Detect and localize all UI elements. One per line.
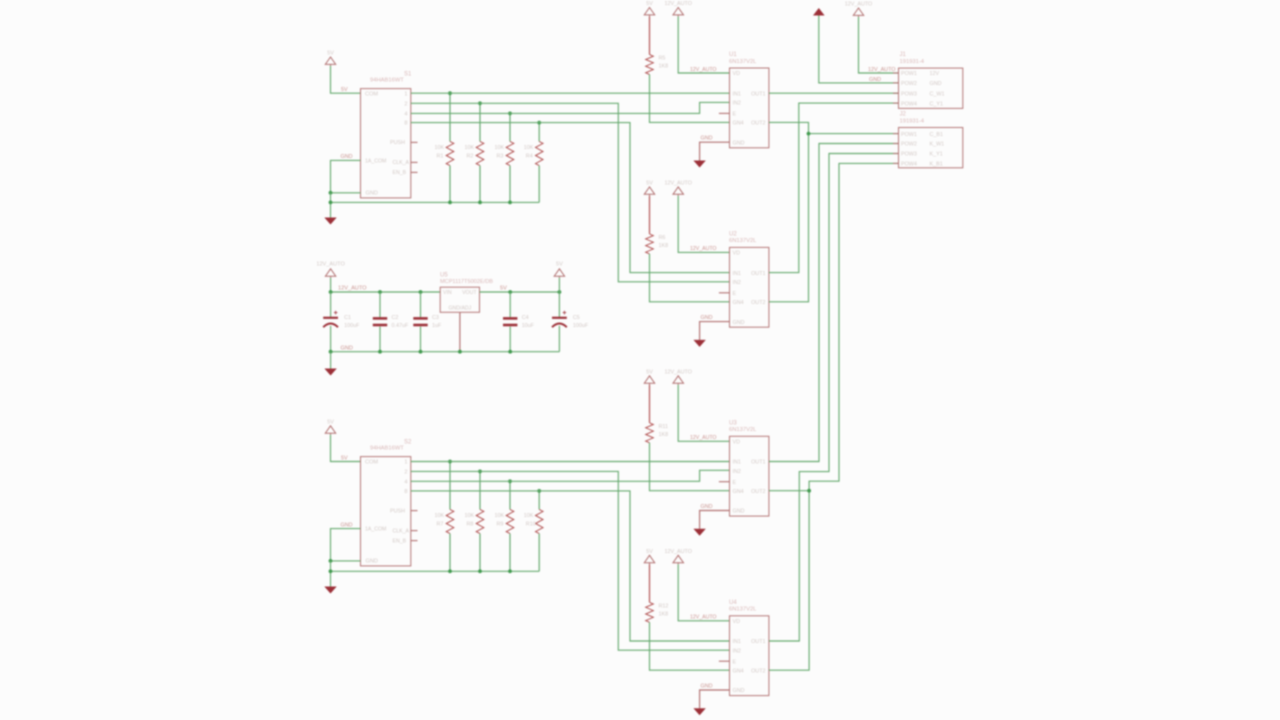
supply arrow 12V_AUTO (regulator input): [325, 269, 335, 278]
svg-text:POW3: POW3: [901, 152, 917, 158]
wire GND to J1 pin2: [819, 16, 899, 83]
junction: [478, 470, 482, 474]
voltage regulator U5 MCP1117T5002E/DB: [440, 287, 479, 312]
svg-text:U4: U4: [729, 600, 737, 606]
svg-text:VD: VD: [733, 440, 741, 446]
svg-text:5V: 5V: [646, 1, 653, 7]
resistor R7 10K: [449, 462, 451, 510]
svg-text:C4: C4: [522, 315, 529, 321]
svg-text:0.47uF: 0.47uF: [392, 323, 409, 329]
svg-text:R3: R3: [497, 153, 504, 159]
svg-text:R12: R12: [659, 603, 669, 609]
junction: [478, 101, 482, 105]
svg-text:10K: 10K: [465, 513, 475, 519]
svg-text:MCP1117T5002E/DB: MCP1117T5002E/DB: [440, 279, 493, 285]
svg-text:1: 1: [404, 460, 407, 466]
wire pull-up to U4 pin GN4: [650, 622, 730, 670]
S2 pin stub CLK_A: [411, 530, 418, 532]
svg-text:K_B1: K_B1: [930, 162, 943, 168]
resistor R8 10K: [479, 471, 481, 509]
svg-text:1K8: 1K8: [659, 432, 669, 438]
svg-text:GN4: GN4: [733, 489, 744, 495]
U4 pin E stub: [719, 660, 730, 662]
S1 pin stub EN_B: [411, 171, 418, 173]
wire net C2 (S2-4 to U3 IN2): [411, 470, 730, 481]
svg-text:GND: GND: [701, 683, 713, 689]
svg-text:R4: R4: [526, 153, 533, 159]
wire S1 GND pin: [331, 160, 361, 192]
capacitor C4 10uF: [509, 292, 511, 317]
svg-text:J2: J2: [900, 112, 907, 118]
svg-text:U2: U2: [729, 232, 737, 238]
ground: [693, 340, 705, 347]
svg-text:1K8: 1K8: [659, 611, 669, 617]
svg-text:94HAB16WT: 94HAB16WT: [370, 78, 404, 84]
wire U4 OUT1 to J2 pin3: [769, 154, 899, 642]
svg-text:12V_AUTO: 12V_AUTO: [664, 1, 691, 7]
wire net A2 (S2-1 to U3 IN1): [411, 461, 730, 463]
J1 pin POW3 lead: [893, 92, 899, 94]
wire U3 GND: [700, 511, 730, 529]
wire pull-up to U1 pin GN4: [650, 75, 730, 123]
junction: [329, 201, 333, 205]
wire ground rail (power section): [331, 351, 560, 353]
svg-text:GND: GND: [930, 81, 942, 87]
optocoupler U1 6N137V2L: [730, 68, 769, 148]
wire 12V_AUTO to U2 VD: [678, 196, 729, 253]
S2 pin stub PUSH: [411, 510, 418, 512]
wire ground rail: [331, 561, 540, 571]
junction: [508, 350, 512, 354]
wire S1 GND2 pin: [331, 192, 361, 194]
svg-text:12V_AUTO: 12V_AUTO: [690, 435, 716, 441]
svg-text:VD: VD: [733, 71, 741, 77]
svg-text:GND: GND: [701, 504, 713, 510]
supply arrow 12V_AUTO (J1): [853, 8, 863, 17]
ground: [324, 587, 336, 594]
svg-text:CLK_A: CLK_A: [393, 160, 410, 166]
svg-text:OUT1: OUT1: [751, 271, 765, 277]
svg-text:1A_COM: 1A_COM: [365, 158, 386, 164]
svg-text:S2: S2: [404, 439, 412, 445]
junction: [448, 460, 452, 464]
svg-text:10K: 10K: [465, 145, 475, 151]
wire 5V output rail: [480, 291, 560, 293]
ground: [693, 529, 705, 536]
junction: [478, 201, 482, 205]
svg-text:12V_AUTO: 12V_AUTO: [690, 246, 716, 252]
wire 12V_AUTO to U1 VD: [678, 16, 729, 73]
svg-text:12V_AUTO: 12V_AUTO: [690, 67, 716, 73]
svg-text:CLK_A: CLK_A: [393, 528, 410, 534]
junction: [329, 350, 333, 354]
svg-text:100uF: 100uF: [573, 323, 589, 329]
svg-text:R5: R5: [659, 56, 666, 62]
supply arrow 5V (regulator output): [554, 269, 564, 278]
supply arrow 5V (S1): [325, 57, 335, 66]
svg-text:GND: GND: [869, 77, 881, 83]
svg-text:C3: C3: [432, 315, 439, 321]
svg-text:R9: R9: [497, 521, 504, 527]
svg-text:COM: COM: [365, 460, 378, 466]
wire 12V_AUTO to U4 VD: [678, 564, 729, 621]
U1 pin E stub: [719, 112, 730, 114]
svg-text:POW4: POW4: [901, 162, 917, 168]
svg-text:K_W1: K_W1: [930, 142, 945, 148]
junction: [558, 290, 562, 294]
supply arrow 12V_AUTO (U3): [673, 376, 684, 385]
wire net D (S1-8 to U2 IN1): [411, 123, 730, 273]
resistor R10 10K: [538, 491, 540, 510]
J2 pin POW4 lead: [893, 162, 899, 164]
svg-text:U3: U3: [729, 421, 737, 427]
svg-text:12V_AUTO: 12V_AUTO: [664, 369, 691, 375]
svg-text:C_Y1: C_Y1: [930, 101, 944, 107]
svg-text:IN2: IN2: [733, 648, 741, 654]
svg-text:R7: R7: [437, 521, 444, 527]
svg-text:IN1: IN1: [733, 271, 741, 277]
junction: [448, 91, 452, 95]
S1 pin stub PUSH: [411, 141, 418, 143]
svg-text:K_Y1: K_Y1: [930, 152, 943, 158]
wire net B (S1-2 to U2 IN2): [411, 103, 730, 281]
svg-text:GND/ADJ: GND/ADJ: [449, 306, 472, 312]
svg-text:IN1: IN1: [733, 639, 741, 645]
wire S2 GND2 pin: [331, 560, 361, 562]
svg-text:12V_AUTO: 12V_AUTO: [316, 262, 345, 268]
ground: [324, 218, 336, 225]
ground: [693, 708, 705, 715]
connector J1 191931-4: [899, 68, 963, 108]
svg-text:2: 2: [404, 470, 407, 476]
svg-text:VD: VD: [733, 251, 741, 257]
svg-text:OUT1: OUT1: [751, 91, 765, 97]
svg-text:POW2: POW2: [901, 142, 917, 148]
junction: [329, 191, 333, 195]
svg-text:4: 4: [404, 479, 407, 485]
capacitor C1 100uF (polarized): [330, 292, 332, 317]
svg-text:VD: VD: [733, 619, 741, 625]
svg-text:10K: 10K: [435, 145, 445, 151]
svg-text:4: 4: [404, 112, 407, 118]
svg-text:POW2: POW2: [901, 81, 917, 87]
svg-text:OUT2: OUT2: [751, 668, 765, 674]
junction: [329, 569, 333, 573]
capacitor C5 100uF (polarized): [558, 292, 560, 317]
svg-text:12V_AUTO: 12V_AUTO: [338, 286, 367, 292]
svg-text:GN4: GN4: [733, 668, 744, 674]
svg-text:6N137V2L: 6N137V2L: [729, 59, 757, 65]
supply arrow 12V_AUTO (U1): [673, 8, 684, 17]
svg-text:1: 1: [404, 91, 407, 97]
wire 5V to S2 COM: [331, 435, 361, 462]
svg-text:S1: S1: [404, 71, 412, 77]
svg-text:EN_B: EN_B: [393, 170, 407, 176]
wire ground rail: [331, 193, 540, 203]
junction: [448, 569, 452, 573]
junction: [807, 489, 811, 493]
pull-up resistor R5 1K8: [649, 16, 651, 54]
svg-text:IN2: IN2: [733, 280, 741, 286]
wire to ground: [330, 352, 332, 369]
J1 pin POW2 lead: [893, 82, 899, 84]
wire U2 GND: [700, 322, 730, 340]
S2 pin stub EN_B: [411, 540, 418, 542]
wire U1 GND: [700, 142, 730, 160]
svg-text:5V: 5V: [341, 87, 348, 93]
junction: [508, 112, 512, 116]
junction: [807, 132, 811, 136]
resistor R1 10K: [449, 93, 451, 141]
wire U1 OUT1 to J1 pin3: [769, 92, 899, 94]
wire 5V arrow to rail: [558, 278, 560, 292]
wire OUT2 bus to J2 pin1: [809, 133, 899, 135]
U3 pin E stub: [719, 481, 730, 483]
wire net A (S1-1 to U1 IN1): [411, 92, 730, 94]
pull-up resistor R11 1K8: [649, 385, 651, 423]
supply arrow 5V (U1): [644, 8, 654, 17]
wire 5V to S1 COM: [331, 66, 361, 93]
svg-text:12V_AUTO: 12V_AUTO: [845, 1, 872, 7]
junction: [419, 350, 423, 354]
svg-text:POW4: POW4: [901, 101, 917, 107]
svg-text:EN_B: EN_B: [393, 538, 407, 544]
resistor R2 10K: [479, 103, 481, 141]
capacitor C2 0.47uF: [379, 292, 381, 317]
junction: [458, 350, 462, 354]
svg-text:E: E: [733, 659, 737, 665]
svg-text:5V: 5V: [341, 455, 348, 461]
svg-text:12V: 12V: [930, 71, 940, 77]
power arrow GND (J1): [813, 8, 825, 16]
svg-text:191931-4: 191931-4: [900, 118, 925, 124]
svg-text:+: +: [562, 310, 566, 317]
svg-text:191931-4: 191931-4: [900, 59, 925, 65]
svg-text:U1: U1: [729, 52, 737, 58]
supply arrow 5V (U4): [644, 555, 654, 564]
J2 pin POW3 lead: [893, 153, 899, 155]
wire 12V_AUTO to J1 pin1: [859, 17, 899, 73]
ground: [693, 161, 705, 168]
connector J2 191931-4: [899, 128, 963, 168]
J1 pin POW4 lead: [893, 102, 899, 104]
svg-text:10K: 10K: [524, 513, 534, 519]
svg-text:COM: COM: [365, 91, 378, 97]
svg-text:1uF: 1uF: [432, 323, 442, 329]
wire U3 OUT2 stub: [769, 490, 809, 492]
junction: [537, 489, 541, 493]
S1 pin stub CLK_A: [411, 161, 418, 163]
optocoupler U3 6N137V2L: [730, 436, 769, 516]
supply arrow 5V (S2): [325, 426, 335, 435]
svg-text:GN4: GN4: [733, 300, 744, 306]
svg-text:R10: R10: [526, 521, 536, 527]
pull-up resistor R6 1K8: [649, 196, 651, 234]
wire pull-up to U3 pin GN4: [650, 443, 730, 491]
svg-text:R2: R2: [467, 153, 474, 159]
svg-text:OUT2: OUT2: [751, 489, 765, 495]
svg-text:+: +: [334, 310, 338, 317]
svg-text:IN1: IN1: [733, 460, 741, 466]
resistor R3 10K: [509, 113, 511, 141]
svg-text:5V: 5V: [646, 180, 653, 186]
U2 pin E stub: [719, 292, 730, 294]
ground: [324, 369, 336, 376]
wire U1 OUT2 / U2 OUT2 bus: [769, 122, 809, 301]
svg-text:6N137V2L: 6N137V2L: [729, 238, 757, 244]
wire U5 GND pin: [459, 312, 461, 351]
junction: [329, 559, 333, 563]
svg-text:GND: GND: [701, 315, 713, 321]
wire 12V_AUTO input rail: [331, 278, 441, 292]
svg-text:VOUT: VOUT: [462, 290, 477, 296]
wire U4 OUT2 to J2 pin4: [769, 163, 899, 670]
svg-text:12V_AUTO: 12V_AUTO: [868, 67, 895, 73]
supply arrow 12V_AUTO (U2): [673, 187, 684, 196]
svg-text:5V: 5V: [500, 286, 507, 292]
svg-text:POW1: POW1: [901, 132, 917, 138]
wire 12V_AUTO to U3 VD: [678, 385, 729, 442]
junction: [478, 569, 482, 573]
svg-text:OUT1: OUT1: [751, 639, 765, 645]
svg-text:R8: R8: [467, 521, 474, 527]
svg-text:J1: J1: [900, 52, 907, 58]
svg-text:POW3: POW3: [901, 91, 917, 97]
rotary switch S1 94HAB16WT: [361, 89, 411, 198]
supply arrow 5V (U2): [644, 187, 654, 196]
svg-text:GND: GND: [366, 559, 378, 565]
svg-text:10K: 10K: [435, 513, 445, 519]
junction: [537, 121, 541, 125]
svg-text:5V: 5V: [556, 262, 563, 268]
optocoupler U2 6N137V2L: [730, 247, 769, 327]
J2 pin POW2 lead: [893, 143, 899, 145]
junction: [508, 479, 512, 483]
junction: [508, 290, 512, 294]
svg-text:C2: C2: [392, 315, 399, 321]
rotary switch S2 94HAB16WT: [361, 457, 411, 566]
svg-text:94HAB16WT: 94HAB16WT: [370, 446, 404, 452]
svg-text:5V: 5V: [646, 369, 653, 375]
svg-text:5V: 5V: [646, 549, 653, 555]
svg-text:OUT1: OUT1: [751, 460, 765, 466]
svg-text:10uF: 10uF: [522, 323, 535, 329]
svg-text:10K: 10K: [495, 145, 505, 151]
resistor R4 10K: [538, 123, 540, 142]
svg-text:12V_AUTO: 12V_AUTO: [664, 549, 691, 555]
wire net D2 (S2-8 to U4 IN1): [411, 491, 730, 641]
svg-text:IN2: IN2: [733, 469, 741, 475]
svg-text:5V: 5V: [327, 419, 334, 425]
wire net C (S1-4 to U1 IN2): [411, 102, 730, 113]
svg-text:GND: GND: [341, 522, 353, 528]
svg-text:IN2: IN2: [733, 101, 741, 107]
wire S2 GND pin: [331, 529, 361, 561]
junction: [378, 350, 382, 354]
svg-text:GND: GND: [733, 140, 745, 146]
junction: [378, 290, 382, 294]
svg-text:POW1: POW1: [901, 71, 917, 77]
junction: [508, 201, 512, 205]
svg-text:GND: GND: [366, 190, 378, 196]
svg-text:C_B1: C_B1: [930, 132, 944, 138]
junction: [329, 290, 333, 294]
svg-text:1A_COM: 1A_COM: [365, 527, 386, 533]
svg-text:OUT2: OUT2: [751, 300, 765, 306]
svg-text:GND: GND: [341, 346, 353, 352]
resistor R9 10K: [509, 481, 511, 509]
optocoupler U4 6N137V2L: [730, 616, 769, 696]
supply arrow 12V_AUTO (U4): [673, 555, 684, 564]
svg-text:8: 8: [404, 121, 407, 127]
svg-text:E: E: [733, 291, 737, 297]
svg-text:R6: R6: [659, 235, 666, 241]
wire U4 GND: [700, 690, 730, 708]
svg-text:2: 2: [404, 101, 407, 107]
svg-text:GN4: GN4: [733, 121, 744, 127]
svg-text:PUSH: PUSH: [390, 508, 405, 514]
supply arrow 5V (U3): [644, 376, 654, 385]
svg-text:8: 8: [404, 489, 407, 495]
svg-text:R11: R11: [659, 424, 669, 430]
wire pull-up to U2 pin GN4: [650, 254, 730, 302]
capacitor C3 1uF: [420, 292, 422, 317]
svg-text:GND: GND: [701, 136, 713, 142]
svg-text:1K8: 1K8: [659, 64, 669, 70]
svg-text:PUSH: PUSH: [390, 140, 405, 146]
J1 pin POW1 lead: [893, 72, 899, 74]
svg-text:6N137V2L: 6N137V2L: [729, 607, 757, 613]
wire net B2 (S2-2 to U4 IN2): [411, 471, 730, 650]
svg-text:VIN: VIN: [443, 290, 452, 296]
svg-text:12V_AUTO: 12V_AUTO: [664, 180, 691, 186]
junction: [419, 290, 423, 294]
svg-text:5V: 5V: [327, 51, 334, 57]
svg-text:IN1: IN1: [733, 91, 741, 97]
svg-text:C1: C1: [344, 315, 351, 321]
junction: [508, 569, 512, 573]
svg-text:12V_AUTO: 12V_AUTO: [690, 615, 716, 621]
wire U3 OUT1 to J2 pin2: [769, 144, 899, 462]
J2 pin POW1 lead: [893, 133, 899, 135]
svg-text:10K: 10K: [495, 513, 505, 519]
svg-text:E: E: [733, 112, 737, 118]
svg-text:E: E: [733, 480, 737, 486]
svg-text:6N137V2L: 6N137V2L: [729, 427, 757, 433]
svg-text:GND: GND: [341, 154, 353, 160]
svg-text:C5: C5: [573, 315, 580, 321]
svg-text:10K: 10K: [524, 145, 534, 151]
junction: [448, 201, 452, 205]
svg-text:OUT2: OUT2: [751, 121, 765, 127]
svg-text:100uF: 100uF: [344, 323, 360, 329]
svg-text:GND: GND: [733, 509, 745, 515]
svg-text:1K8: 1K8: [659, 243, 669, 249]
svg-text:R1: R1: [437, 153, 444, 159]
svg-text:GND: GND: [733, 688, 745, 694]
pull-up resistor R12 1K8: [649, 564, 651, 602]
wire U2 OUT1 to J1 pin4: [769, 103, 899, 273]
svg-text:GND: GND: [733, 320, 745, 326]
svg-text:C_W1: C_W1: [930, 91, 945, 97]
svg-text:U5: U5: [440, 273, 448, 279]
